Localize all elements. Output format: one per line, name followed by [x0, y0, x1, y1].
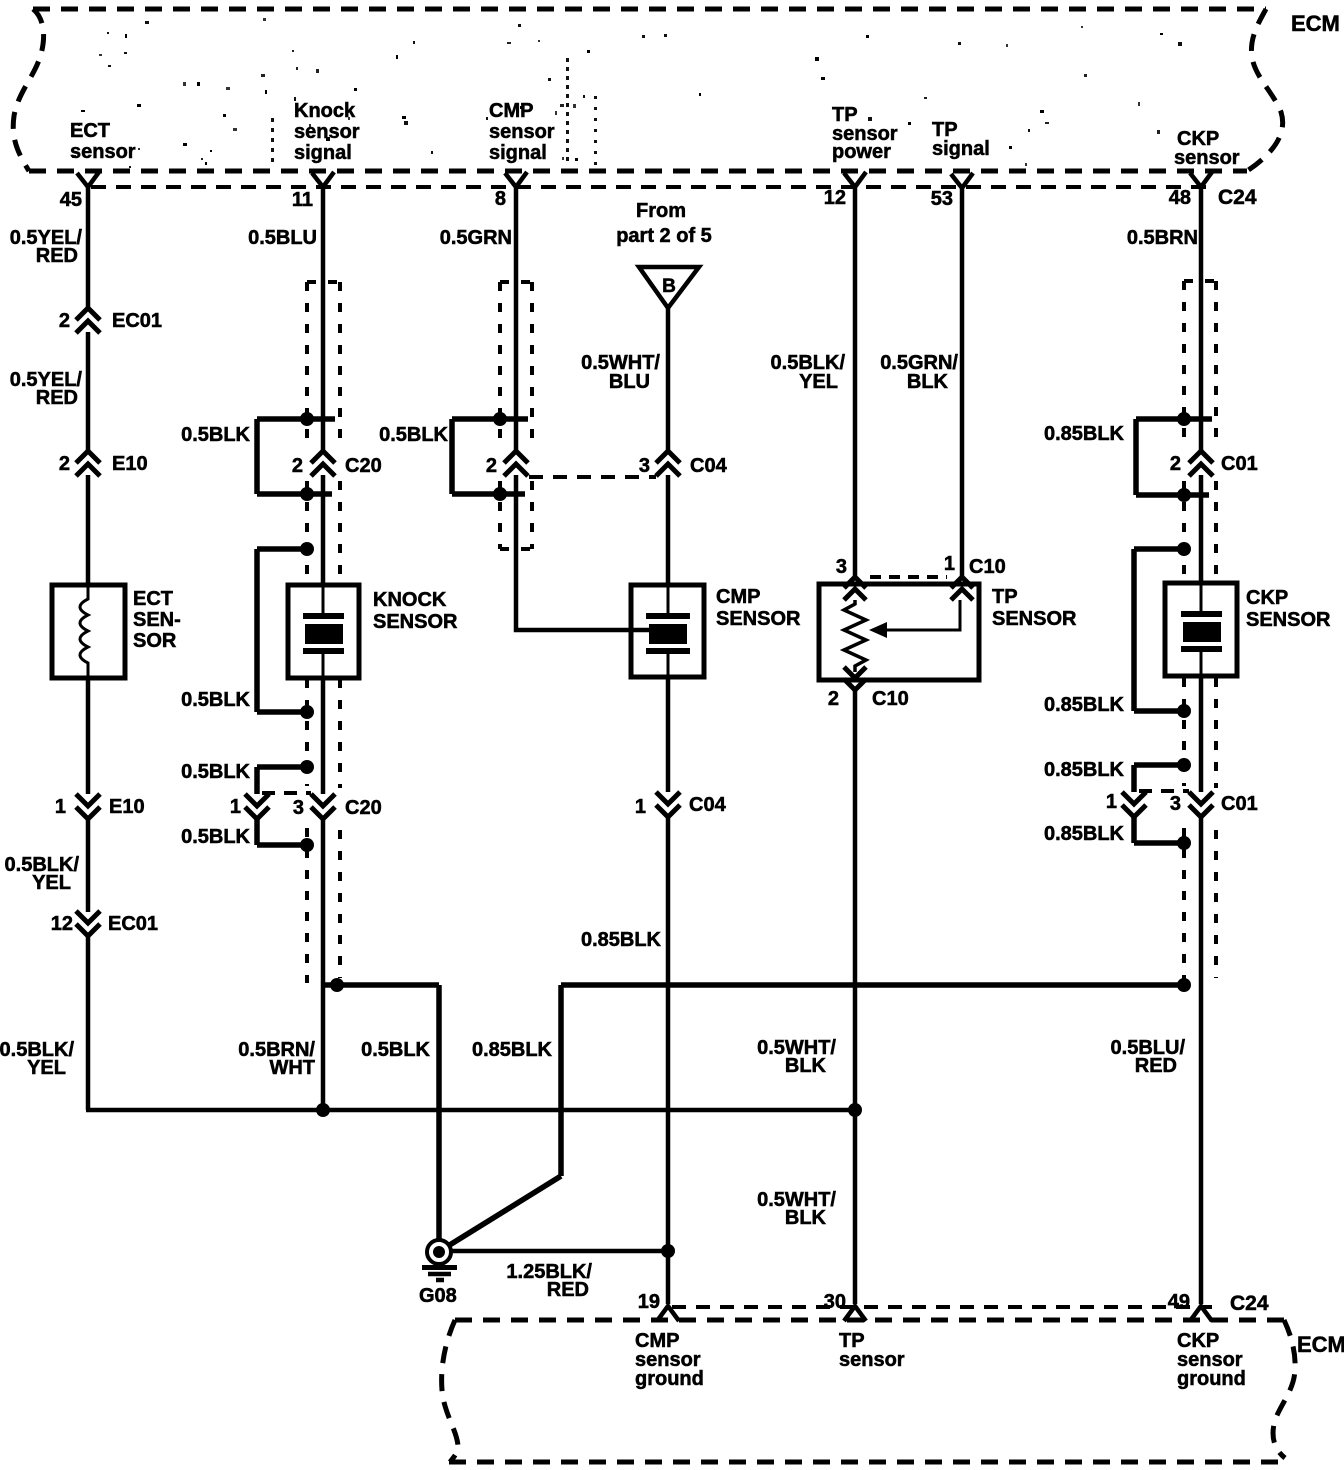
svg-text:sensor: sensor [489, 121, 555, 143]
connector C20 pin 3 [311, 794, 335, 819]
connector C20 pin 1 [245, 794, 269, 819]
connector C24 face line (top) [91, 185, 1214, 189]
svg-text:RED: RED [36, 245, 78, 267]
connector C24 face line (bottom) [672, 1305, 1212, 1309]
svg-text:signal: signal [489, 142, 547, 164]
knock shield drop 0.5BLK to C20-1 [257, 767, 305, 794]
svg-text:3: 3 [293, 797, 304, 819]
svg-text:YEL: YEL [799, 371, 838, 393]
svg-text:B: B [662, 276, 676, 297]
CMP sensor box [631, 585, 704, 677]
wire TP signal 0.5GRN/BLK [960, 187, 965, 578]
wire CMP 0.85BLK down [666, 816, 671, 1304]
svg-text:ECM: ECM [1297, 1332, 1344, 1357]
svg-text:EC01: EC01 [112, 310, 162, 332]
svg-text:WHT: WHT [269, 1057, 315, 1079]
CKP shield drop 0.85BLK to C01-1 [1134, 765, 1182, 792]
wire knock 0.5BRN/WHT to ground bus [321, 818, 326, 1110]
pin 11 ECM terminal [312, 172, 334, 187]
svg-text:EC01: EC01 [108, 913, 158, 935]
wire CKP C01 to sensor [1199, 475, 1204, 584]
svg-text:C10: C10 [969, 556, 1006, 578]
wire B to CMP sensor [666, 475, 671, 586]
svg-text:45: 45 [60, 189, 82, 211]
svg-text:48: 48 [1169, 187, 1191, 209]
svg-text:19: 19 [638, 1291, 660, 1313]
wire CMP sensor to C04-1 [666, 677, 671, 792]
wire 1.25BLK/RED ground lead [450, 1249, 668, 1254]
svg-text:2: 2 [59, 310, 70, 332]
svg-text:0.85BLK: 0.85BLK [1044, 423, 1125, 445]
wire ground bus horizontal [86, 1108, 854, 1113]
svg-text:SOR: SOR [133, 630, 177, 652]
knock sensor element [303, 586, 344, 678]
svg-text:0.85BLK: 0.85BLK [1044, 823, 1125, 845]
svg-text:RED: RED [1135, 1055, 1177, 1077]
knock shield drain wire 0.5BLK to ground [325, 985, 439, 1241]
wire knock 0.5BLU [321, 186, 326, 452]
wire CMP 0.5GRN [514, 186, 519, 452]
svg-text:G08: G08 [419, 1285, 457, 1307]
svg-text:8: 8 [495, 188, 506, 210]
svg-text:53: 53 [931, 188, 953, 210]
connector C04 pin 2 [504, 451, 528, 476]
pin 12 ECM terminal [844, 172, 866, 187]
connector EC01 pin 2 [76, 308, 100, 333]
svg-text:E10: E10 [109, 796, 145, 818]
svg-text:YEL: YEL [32, 872, 71, 894]
svg-text:0.5GRN: 0.5GRN [440, 227, 512, 249]
connector E10 pin 2 [76, 451, 100, 476]
wire TP power 0.5BLK/YEL [853, 186, 858, 578]
svg-text:part 2 of 5: part 2 of 5 [616, 225, 712, 247]
svg-text:E10: E10 [112, 453, 148, 475]
CKP shield bypass 0.85BLK around sensor [1134, 549, 1182, 711]
junction dot knock shield F [300, 838, 314, 852]
junction dot knock wire to bus [316, 1103, 330, 1117]
svg-text:ground: ground [1177, 1368, 1246, 1390]
connector C10 face dashes (top) [870, 575, 947, 579]
svg-text:ECT: ECT [133, 588, 173, 610]
svg-text:YEL: YEL [27, 1057, 66, 1079]
svg-text:C24: C24 [1218, 186, 1257, 209]
svg-text:BLK: BLK [785, 1055, 827, 1077]
junction dot knock shield B [300, 487, 314, 501]
svg-text:BLU: BLU [609, 371, 650, 393]
svg-text:sensor: sensor [839, 1349, 905, 1371]
svg-text:From: From [636, 200, 686, 222]
svg-text:49: 49 [1168, 1291, 1190, 1313]
svg-text:power: power [832, 141, 891, 163]
TP sensor box [819, 584, 979, 680]
wire ECT 0.5BLK/YEL to ground bus [86, 935, 91, 1108]
svg-text:1: 1 [635, 796, 646, 818]
junction dot CKP shield B [1177, 488, 1191, 502]
ECM module block (bottom) [442, 1320, 1296, 1462]
connector C10 pin 2 (box bottom) [844, 667, 866, 690]
junction dot knock shield E [300, 760, 314, 774]
svg-text:C24: C24 [1230, 1292, 1269, 1315]
svg-text:30: 30 [824, 1291, 846, 1313]
off-page triangle B [639, 267, 699, 308]
svg-text:1: 1 [944, 553, 955, 575]
svg-text:C01: C01 [1221, 793, 1258, 815]
wire ECT sensor to E10 pin1 [86, 677, 91, 794]
svg-text:0.5BLK: 0.5BLK [181, 826, 250, 848]
pin 48 ECM terminal [1190, 172, 1212, 187]
svg-text:sensor: sensor [294, 121, 360, 143]
svg-text:2: 2 [292, 455, 303, 477]
svg-text:0.85BLK: 0.85BLK [1044, 759, 1125, 781]
CKP sensor box [1165, 583, 1237, 676]
svg-text:0.85BLK: 0.85BLK [581, 929, 662, 951]
wire TP 0.5WHT/BLK to bus [853, 690, 858, 1304]
connector E10 pin 1 [76, 794, 100, 819]
svg-text:SENSOR: SENSOR [716, 608, 801, 630]
svg-text:1: 1 [55, 796, 66, 818]
wire CKP 0.5BLU/RED to ECM pin 49 [1199, 816, 1204, 1304]
wire ECT 0.5BLK/YEL [86, 818, 91, 912]
svg-text:C20: C20 [345, 455, 382, 477]
junction dot knock shield drain [330, 978, 344, 992]
CMP shield dashed box [500, 282, 532, 549]
svg-text:SENSOR: SENSOR [373, 611, 458, 633]
svg-text:2: 2 [1170, 453, 1181, 475]
svg-text:3: 3 [639, 455, 650, 477]
svg-text:C20: C20 [345, 797, 382, 819]
wire ECT 0.5YEL/RED lower [86, 332, 91, 452]
junction dot knock shield C [300, 542, 314, 556]
pin 49 ECM terminal [1190, 1306, 1212, 1321]
svg-text:ECM: ECM [1291, 11, 1340, 36]
svg-text:1: 1 [230, 796, 241, 818]
svg-text:3: 3 [836, 556, 847, 578]
pin 53 ECM terminal [951, 173, 973, 188]
svg-text:2: 2 [828, 688, 839, 710]
junction dot CMP shield A [493, 412, 507, 426]
svg-text:RED: RED [36, 387, 78, 409]
junction dot CKP shield A [1177, 412, 1191, 426]
svg-text:signal: signal [932, 138, 990, 160]
CMP sensor element [646, 586, 690, 677]
svg-text:11: 11 [292, 189, 313, 211]
svg-text:CKP: CKP [1246, 587, 1288, 609]
pin 8 ECM terminal [505, 172, 527, 187]
pin 45 ECM terminal [77, 172, 99, 187]
connector C01 pin 3 [1189, 792, 1213, 817]
svg-text:2: 2 [59, 453, 70, 475]
connector C01 pin 2 [1189, 451, 1213, 476]
CMP shield jumper 0.5BLK around C04-2 [452, 419, 528, 494]
junction dot CMP shield B [493, 487, 507, 501]
svg-text:0.5BLK: 0.5BLK [181, 424, 250, 446]
knock shield bypass 0.5BLK around sensor [257, 549, 305, 712]
CKP sensor element [1181, 584, 1222, 676]
connector C04 pin 3 [656, 451, 680, 476]
junction dot CKP shield drain [1177, 978, 1191, 992]
svg-text:Knock: Knock [294, 100, 356, 122]
svg-text:0.5BLK: 0.5BLK [181, 689, 250, 711]
svg-text:C10: C10 [872, 688, 909, 710]
wire ECT to sensor [86, 475, 91, 586]
junction dot knock shield D [300, 705, 314, 719]
svg-text:ground: ground [635, 1368, 704, 1390]
junction dot CMP wire to ground lead [661, 1244, 675, 1258]
svg-text:0.5BLK: 0.5BLK [379, 424, 448, 446]
svg-text:TP: TP [992, 586, 1018, 608]
svg-text:BLK: BLK [785, 1207, 827, 1229]
connector C20 pin 2 [311, 451, 335, 476]
knock shield drop below C20-1 [257, 818, 305, 845]
svg-text:SENSOR: SENSOR [1246, 609, 1331, 631]
svg-text:sensor: sensor [1174, 147, 1240, 169]
junction dot CKP shield F [1177, 836, 1191, 850]
connector C10 pin 1 (box top) [951, 577, 973, 600]
CKP shield dashed box [1184, 281, 1216, 983]
pin 30 ECM terminal [844, 1306, 866, 1321]
TP wiper arrow [886, 600, 960, 630]
svg-text:BLK: BLK [907, 371, 949, 393]
connector C10 pin 3 (box top) [844, 577, 866, 600]
svg-text:1: 1 [1106, 791, 1117, 813]
connector EC01 pin 12 [76, 911, 100, 936]
wire CKP sensor to C01-3 [1199, 676, 1204, 792]
svg-text:C04: C04 [690, 455, 728, 477]
wire knock sensor to C20-3 [321, 678, 326, 794]
connector C20 face dashes [262, 791, 311, 795]
junction dot knock shield A [300, 412, 314, 426]
connector C04 face dashes [529, 475, 656, 479]
svg-text:CMP: CMP [716, 586, 760, 608]
junction dot CKP shield C [1177, 542, 1191, 556]
connector C01 pin 1 [1122, 792, 1146, 817]
CKP shield drop below C01-1 [1134, 816, 1182, 843]
svg-text:0.85BLK: 0.85BLK [1044, 694, 1125, 716]
svg-text:sensor: sensor [70, 141, 136, 163]
wire knock C20 to sensor [321, 475, 326, 586]
svg-text:SEN-: SEN- [133, 609, 181, 631]
CKP shield drain wire 0.85BLK [448, 985, 1182, 1246]
wire CKP 0.5BRN [1199, 186, 1204, 451]
svg-text:C04: C04 [689, 794, 727, 816]
ECT thermistor coil [80, 586, 88, 677]
svg-text:0.85BLK: 0.85BLK [472, 1039, 553, 1061]
svg-text:SENSOR: SENSOR [992, 608, 1077, 630]
wire 0.5WHT/BLU from triangle B [666, 307, 671, 452]
junction dot CKP shield E [1177, 758, 1191, 772]
svg-text:0.5BLU: 0.5BLU [248, 227, 317, 249]
knock shield jumper 0.5BLK around C20-2 [257, 419, 335, 494]
svg-text:12: 12 [824, 187, 846, 209]
svg-text:0.5BLK: 0.5BLK [181, 761, 250, 783]
svg-text:signal: signal [294, 142, 352, 164]
ECM module block (top) [13, 9, 1282, 171]
knock sensor box [288, 585, 359, 678]
svg-text:C01: C01 [1221, 453, 1258, 475]
svg-text:0.5BRN: 0.5BRN [1127, 227, 1198, 249]
wire ECT 0.5YEL/RED upper [86, 186, 91, 309]
TP potentiometer resistor [844, 600, 866, 672]
junction dot CKP shield D [1177, 704, 1191, 718]
svg-text:ECT: ECT [70, 120, 110, 142]
ECT sensor box [52, 585, 125, 678]
svg-text:3: 3 [1170, 793, 1181, 815]
junction dot TP wire to bus [848, 1103, 862, 1117]
ground G08 [422, 1240, 457, 1280]
svg-text:RED: RED [547, 1279, 589, 1301]
CKP shield jumper 0.85BLK around C01-2 [1136, 419, 1212, 495]
svg-text:2: 2 [486, 455, 497, 477]
connector C04 pin 1 [656, 792, 680, 817]
svg-text:CMP: CMP [489, 100, 533, 122]
pin 19 ECM terminal [657, 1306, 679, 1321]
svg-text:KNOCK: KNOCK [373, 589, 447, 611]
connector C01 face dashes [1139, 789, 1189, 793]
wire CMP signal into sensor [516, 475, 650, 630]
svg-text:0.5BLK: 0.5BLK [361, 1039, 430, 1061]
knock shield dashed box [307, 282, 340, 983]
svg-text:12: 12 [51, 913, 73, 935]
